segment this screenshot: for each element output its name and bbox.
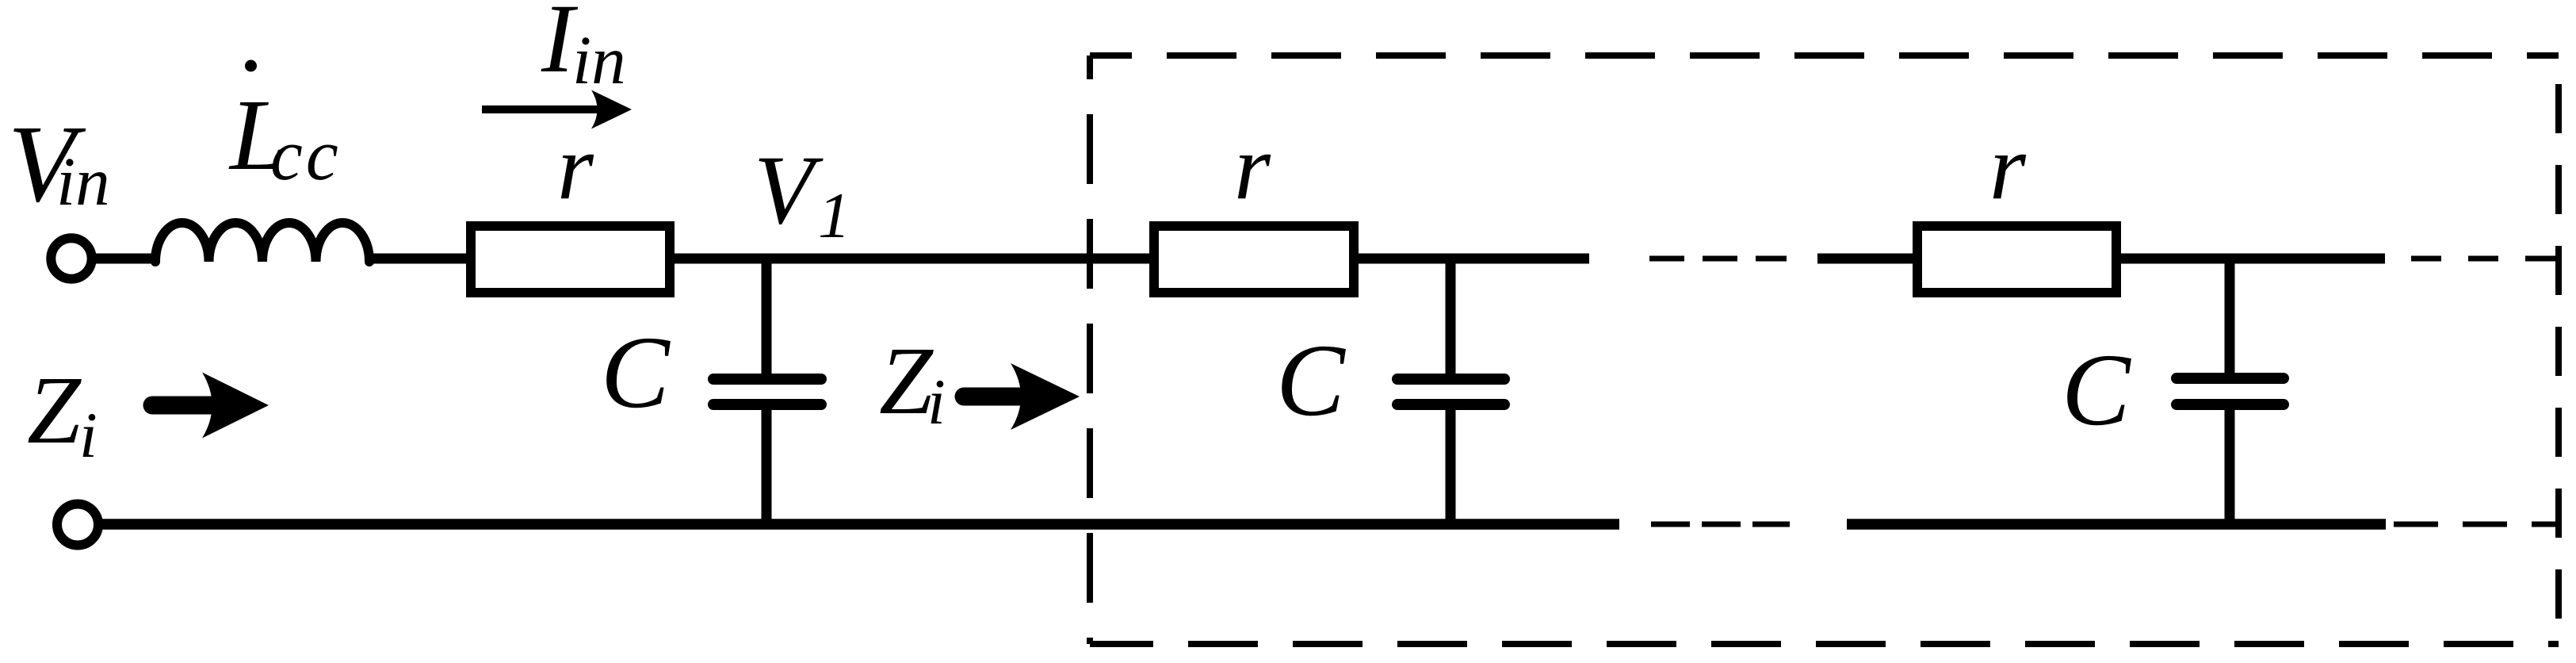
wire dashes: top gap between sections [1649, 256, 1787, 262]
rail dashes: bottom right continuation [2394, 522, 2557, 527]
capacitor C2 upper lead [1446, 259, 1456, 374]
phasor dot over Lcc [245, 60, 257, 72]
bottom rail wire [99, 519, 1619, 530]
terminal T1 (top-left input) [51, 238, 91, 278]
impedance arrow Zi (middle) [964, 388, 1040, 406]
impedance arrow Zi (left) [152, 397, 230, 415]
capacitor C2 plates [1397, 374, 1504, 385]
svg-text:C: C [601, 316, 671, 430]
svg-text:i: i [927, 366, 946, 438]
wire: R1 to R2 through node V1 [671, 254, 1151, 264]
wire: inductor to resistor R1 [369, 254, 469, 264]
svg-text:cc: cc [270, 114, 342, 195]
svg-text:r: r [557, 115, 594, 219]
dashed box: repeated ladder section [1090, 52, 2559, 59]
capacitor C2 lower lead [1446, 409, 1456, 524]
svg-text:1: 1 [818, 179, 850, 251]
capacitor C1 upper lead [762, 259, 772, 374]
svg-text:V: V [754, 136, 824, 244]
svg-text:r: r [1989, 115, 2027, 219]
resistor R1 (r) [471, 226, 670, 293]
svg-text:Z: Z [879, 328, 934, 435]
capacitor C3 lower lead [2225, 409, 2235, 524]
wire: R2 to section gap [1355, 254, 1589, 264]
arrow Iin [482, 105, 601, 113]
wire top: terminal to inductor [92, 254, 155, 264]
inductor Lcc [155, 223, 369, 262]
bottom rail wire: section 3 [1847, 519, 2386, 530]
svg-text:i: i [79, 399, 97, 471]
rail dashes: bottom gap between sections [1651, 522, 1790, 527]
resistor R3 (r) [1917, 226, 2116, 293]
svg-text:in: in [56, 143, 110, 220]
capacitor C1 lower lead [762, 409, 772, 524]
capacitor C3 plates [2177, 373, 2284, 384]
svg-text:C: C [1276, 324, 1346, 438]
svg-text:in: in [572, 21, 626, 98]
capacitor C3 upper lead [2225, 259, 2235, 373]
terminal T2 (bottom-left) [57, 504, 98, 546]
svg-text:Z: Z [27, 357, 82, 464]
capacitor C1 plates [713, 374, 821, 385]
svg-text:r: r [1234, 115, 1271, 219]
svg-text:C: C [2062, 333, 2131, 447]
wire: stub into resistor R3 [1817, 254, 1916, 264]
wire: R3 to right dashes [2118, 254, 2385, 264]
wire dashes: top right continuation [2411, 256, 2557, 262]
resistor R2 (r) [1154, 226, 1354, 293]
